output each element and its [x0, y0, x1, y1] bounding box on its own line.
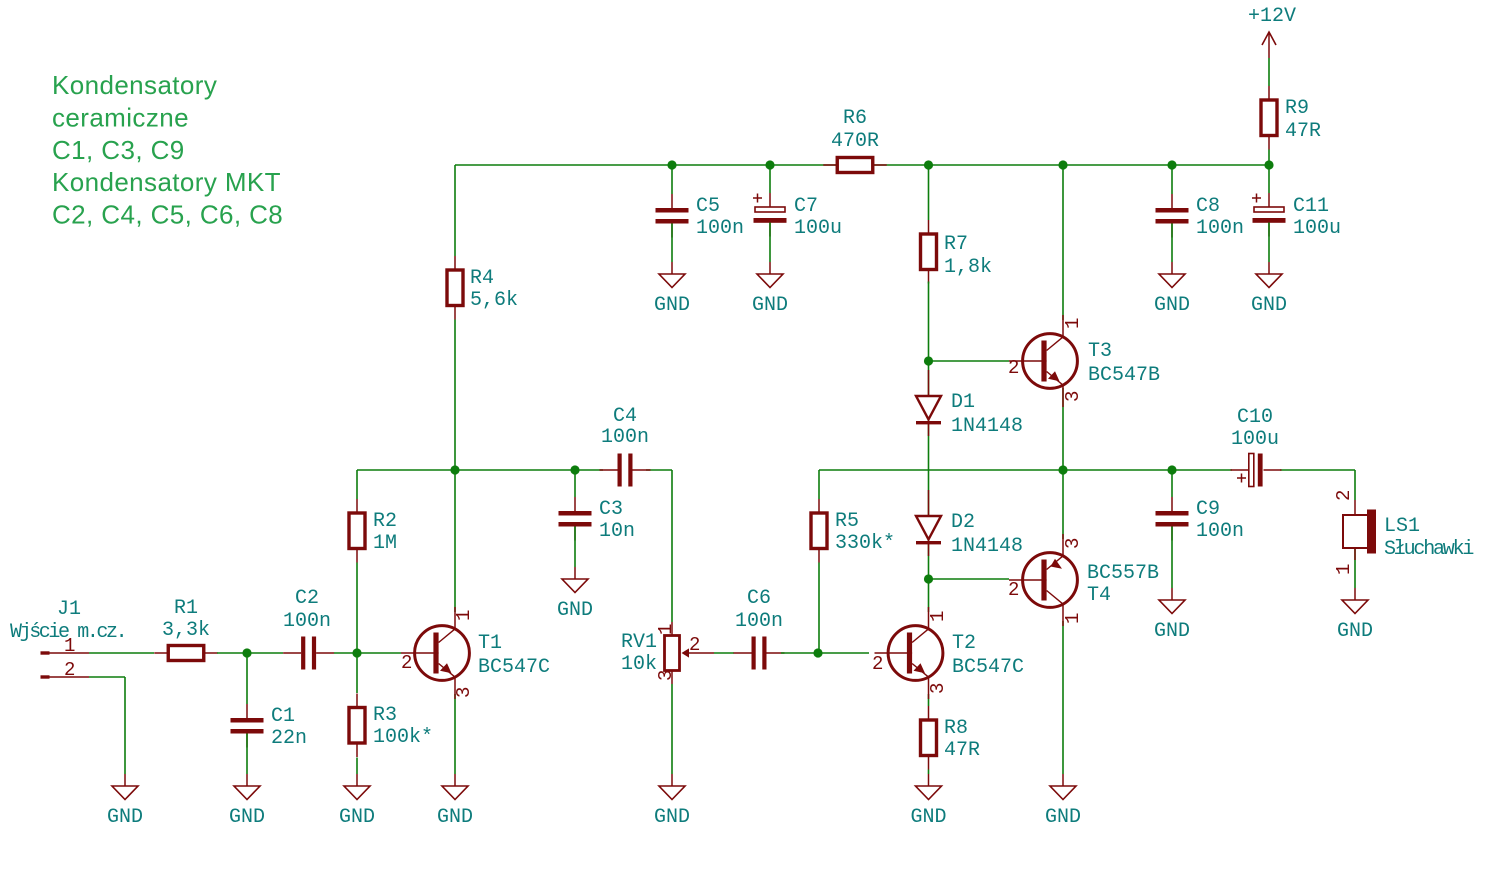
svg-text:BC547B: BC547B	[1088, 364, 1160, 387]
svg-text:47R: 47R	[1285, 120, 1321, 143]
svg-text:1: 1	[655, 624, 677, 635]
svg-text:100n: 100n	[1196, 520, 1244, 543]
svg-text:2: 2	[872, 653, 883, 675]
svg-text:R9: R9	[1285, 97, 1309, 120]
svg-text:GND: GND	[339, 806, 375, 829]
svg-text:GND: GND	[910, 806, 946, 829]
svg-text:J1: J1	[57, 598, 81, 621]
svg-text:RV1: RV1	[621, 631, 657, 654]
svg-text:T2: T2	[952, 632, 976, 655]
svg-text:GND: GND	[1337, 620, 1373, 643]
svg-text:470R: 470R	[831, 130, 879, 153]
svg-text:1,8k: 1,8k	[944, 256, 992, 279]
svg-text:3: 3	[1062, 538, 1084, 549]
svg-text:100n: 100n	[601, 426, 649, 449]
svg-text:T3: T3	[1088, 340, 1112, 363]
svg-text:2: 2	[689, 634, 700, 656]
svg-text:R8: R8	[944, 717, 968, 740]
svg-text:D1: D1	[951, 391, 975, 414]
svg-text:GND: GND	[557, 599, 593, 622]
svg-text:2: 2	[1008, 357, 1019, 379]
svg-text:C6: C6	[747, 587, 771, 610]
svg-text:Kondensatory MKT: Kondensatory MKT	[52, 167, 281, 197]
svg-text:100n: 100n	[283, 610, 331, 633]
svg-text:1: 1	[453, 610, 475, 621]
svg-text:1: 1	[927, 611, 949, 622]
svg-text:1N4148: 1N4148	[951, 535, 1023, 558]
svg-text:C11: C11	[1293, 195, 1329, 218]
svg-text:GND: GND	[752, 294, 788, 317]
svg-text:3: 3	[655, 670, 677, 681]
svg-text:3: 3	[927, 683, 949, 694]
svg-text:C3: C3	[599, 498, 623, 521]
svg-text:R3: R3	[373, 704, 397, 727]
svg-text:GND: GND	[1045, 806, 1081, 829]
svg-text:C9: C9	[1196, 498, 1220, 521]
svg-text:C2, C4, C5, C6, C8: C2, C4, C5, C6, C8	[52, 200, 283, 230]
svg-text:C7: C7	[794, 195, 818, 218]
svg-text:GND: GND	[654, 294, 690, 317]
svg-text:BC547C: BC547C	[952, 656, 1024, 679]
svg-text:R7: R7	[944, 233, 968, 256]
svg-text:GND: GND	[654, 806, 690, 829]
svg-text:GND: GND	[1251, 294, 1287, 317]
svg-text:R5: R5	[835, 510, 859, 533]
svg-text:BC547C: BC547C	[478, 656, 550, 679]
svg-text:BC557B: BC557B	[1087, 562, 1159, 585]
svg-text:3,3k: 3,3k	[162, 619, 210, 642]
svg-text:C1: C1	[271, 705, 295, 728]
svg-text:1M: 1M	[373, 532, 397, 555]
svg-text:3: 3	[1062, 391, 1084, 402]
svg-text:1: 1	[64, 635, 75, 657]
svg-text:3: 3	[453, 687, 475, 698]
svg-text:100k*: 100k*	[373, 726, 433, 749]
svg-text:GND: GND	[1154, 620, 1190, 643]
svg-text:T4: T4	[1087, 584, 1111, 607]
svg-text:LS1: LS1	[1384, 515, 1420, 538]
svg-text:D2: D2	[951, 511, 975, 534]
svg-text:100u: 100u	[1231, 428, 1279, 451]
svg-text:2: 2	[401, 652, 412, 674]
svg-text:2: 2	[1008, 579, 1019, 601]
svg-text:GND: GND	[229, 806, 265, 829]
svg-text:100n: 100n	[1196, 217, 1244, 240]
svg-text:100n: 100n	[696, 217, 744, 240]
svg-text:10k: 10k	[621, 653, 657, 676]
svg-text:C4: C4	[613, 405, 637, 428]
svg-text:+12V: +12V	[1248, 5, 1296, 28]
svg-text:C8: C8	[1196, 195, 1220, 218]
svg-text:1: 1	[1062, 318, 1084, 329]
svg-text:R1: R1	[174, 597, 198, 620]
svg-text:2: 2	[1333, 490, 1355, 501]
svg-text:T1: T1	[478, 632, 502, 655]
svg-text:1N4148: 1N4148	[951, 415, 1023, 438]
svg-text:100u: 100u	[1293, 217, 1341, 240]
svg-text:C2: C2	[295, 587, 319, 610]
svg-text:2: 2	[64, 659, 75, 681]
svg-text:100u: 100u	[794, 217, 842, 240]
svg-text:R2: R2	[373, 510, 397, 533]
svg-text:47R: 47R	[944, 739, 980, 762]
svg-text:5,6k: 5,6k	[470, 289, 518, 312]
svg-text:1: 1	[1062, 613, 1084, 624]
svg-text:Kondensatory: Kondensatory	[52, 70, 217, 100]
svg-text:C1, C3, C9: C1, C3, C9	[52, 135, 185, 165]
svg-text:100n: 100n	[735, 610, 783, 633]
svg-text:C10: C10	[1237, 406, 1273, 429]
svg-text:R4: R4	[470, 267, 494, 290]
svg-text:330k*: 330k*	[835, 532, 895, 555]
svg-text:C5: C5	[696, 195, 720, 218]
svg-text:GND: GND	[437, 806, 473, 829]
svg-text:22n: 22n	[271, 727, 307, 750]
svg-text:Słuchawki: Słuchawki	[1384, 538, 1473, 561]
svg-text:GND: GND	[1154, 294, 1190, 317]
svg-text:1: 1	[1333, 564, 1355, 575]
svg-text:ceramiczne: ceramiczne	[52, 102, 189, 132]
svg-text:R6: R6	[843, 107, 867, 130]
svg-text:GND: GND	[107, 806, 143, 829]
svg-text:10n: 10n	[599, 520, 635, 543]
